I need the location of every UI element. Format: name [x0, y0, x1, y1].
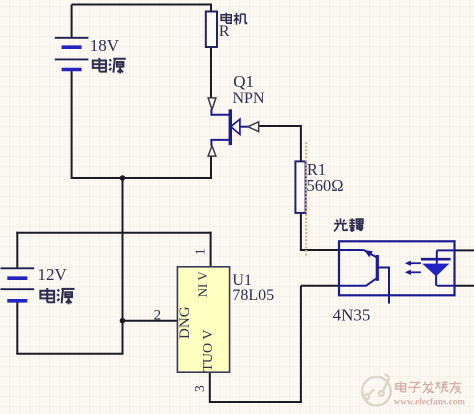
- svg-text:4N35: 4N35: [333, 305, 371, 324]
- svg-text:560Ω: 560Ω: [307, 176, 344, 195]
- svg-text:2: 2: [154, 307, 162, 323]
- svg-text:TUO V: TUO V: [201, 330, 216, 372]
- svg-text:R: R: [219, 23, 230, 40]
- svg-text:DNG: DNG: [177, 306, 193, 339]
- svg-text:18V: 18V: [90, 36, 120, 55]
- svg-text:12V: 12V: [38, 265, 68, 284]
- svg-text:www.elecfans.com: www.elecfans.com: [394, 397, 466, 407]
- svg-text:78L05: 78L05: [232, 287, 274, 304]
- svg-text:3: 3: [192, 385, 207, 392]
- svg-text:1: 1: [192, 248, 207, 255]
- svg-text:NPN: NPN: [233, 90, 265, 107]
- svg-text:NI V: NI V: [195, 271, 210, 298]
- svg-text:Q1: Q1: [233, 72, 254, 91]
